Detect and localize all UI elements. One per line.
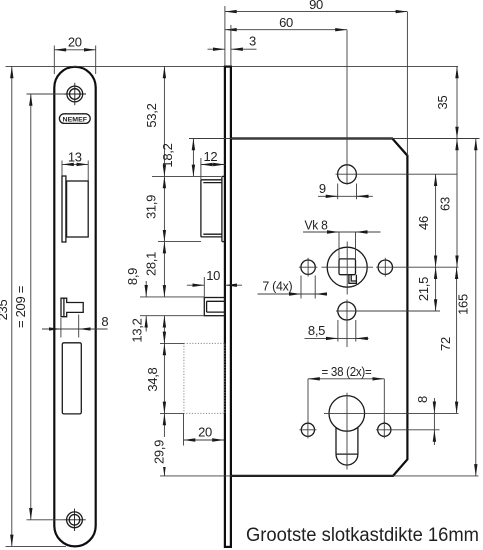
extension line screw top (27, 93, 65, 95)
dim 53,2 (144, 66, 164, 176)
dim 13 latch width (62, 149, 88, 181)
dim 9 (318, 181, 373, 199)
dim 8,9 (125, 268, 146, 332)
dim 20 pocket (184, 413, 225, 445)
extension pocket bottom (160, 412, 184, 414)
svg-text:12: 12 (203, 149, 217, 164)
deadbolt slot (left view) (62, 343, 81, 414)
dim 31,9 (144, 176, 165, 241)
svg-text:8,5: 8,5 (308, 323, 325, 338)
dim 18,2 (160, 139, 193, 177)
dim 21,5 (416, 267, 436, 311)
dim 8 right (415, 396, 435, 445)
extension line plate bottom (6, 545, 67, 547)
svg-text:53,2: 53,2 (144, 103, 159, 127)
svg-text:28,1: 28,1 (143, 252, 158, 276)
dim 12 (201, 149, 225, 180)
svg-text:7 (4x): 7 (4x) (262, 279, 292, 294)
svg-text:29,9: 29,9 (151, 440, 166, 464)
fixing hole 7mm left (299, 258, 318, 277)
dim 235 (0, 66, 12, 546)
dim =209= (13, 94, 31, 520)
svg-text:90: 90 (309, 0, 323, 12)
svg-text:235: 235 (0, 300, 10, 321)
auxiliary latch T (left view) (61, 298, 83, 317)
dim =38(2x)= (308, 364, 384, 423)
dim 72 (438, 267, 457, 413)
svg-text:165: 165 (455, 294, 470, 315)
dim 13,2 (129, 316, 164, 344)
latch cutout (left view) (62, 176, 88, 242)
fixing hole 7mm right (378, 258, 392, 277)
lock case outline (231, 139, 408, 476)
svg-text:13: 13 (68, 149, 82, 164)
svg-text:9: 9 (319, 181, 326, 196)
dim 60 (225, 15, 347, 30)
svg-text:63: 63 (438, 197, 453, 211)
dim Vk 8 (303, 218, 381, 259)
svg-text:Grootste slotkastdikte 16mm: Grootste slotkastdikte 16mm (246, 525, 479, 546)
screw hole bottom (63, 509, 85, 531)
dim 8,5 (305, 320, 369, 342)
svg-text:31,9: 31,9 (144, 195, 159, 219)
cylinder fixing hole right (376, 421, 440, 438)
dim 20 plate width (54, 35, 95, 74)
dim 28,1 (143, 242, 164, 297)
case bottom extension thin (160, 475, 479, 477)
svg-text:13,2: 13,2 (129, 318, 144, 342)
svg-text:NEMEF: NEMEF (63, 116, 88, 123)
svg-text:21,5: 21,5 (416, 277, 431, 301)
euro cylinder hole (324, 393, 459, 470)
svg-text:8: 8 (101, 314, 108, 329)
dim 63 (438, 139, 457, 268)
extension latch bottom (158, 241, 201, 243)
svg-text:= 38 (2x)=: = 38 (2x)= (322, 364, 372, 379)
long extension line top (6, 65, 459, 67)
svg-text:34,8: 34,8 (145, 367, 160, 391)
svg-text:3: 3 (249, 33, 256, 48)
extension pocket top (160, 342, 184, 344)
svg-text:60: 60 (279, 15, 293, 30)
svg-text:20: 20 (68, 35, 82, 50)
case backset extension top right (406, 12, 408, 156)
dim 8 aux latch (42, 314, 108, 338)
faceplate strip (side) (225, 67, 231, 547)
svg-text:46: 46 (416, 216, 431, 230)
dim 34,8 (145, 343, 165, 413)
extension aux top (140, 296, 204, 298)
screw hole top (64, 83, 86, 105)
svg-text:72: 72 (438, 337, 453, 351)
NEMEF logo (59, 114, 90, 124)
dim 7(4x) (258, 276, 327, 299)
extension spindle row right (376, 266, 458, 268)
dim 10 (187, 268, 242, 298)
latch hole 9mm (336, 30, 458, 185)
extension aux bottom (140, 315, 204, 317)
spindle follower (322, 242, 374, 295)
dim 165 (455, 139, 476, 476)
extension line screw bottom (27, 519, 64, 521)
dim 35 (435, 66, 457, 138)
svg-text:20: 20 (198, 425, 212, 440)
svg-text:= 209 =: = 209 = (13, 286, 28, 328)
svg-text:18,2: 18,2 (160, 143, 175, 167)
dim 29,9 (151, 413, 170, 476)
svg-text:8: 8 (415, 396, 430, 403)
case top extension thin (189, 138, 480, 140)
cylinder fixing hole left (299, 421, 316, 438)
hole 8.5 (336, 300, 440, 348)
dim 3 (208, 6, 257, 67)
svg-text:35: 35 (435, 96, 450, 110)
faceplate outline (left view) (54, 67, 95, 547)
dim 90 (225, 0, 408, 12)
svg-text:8,9: 8,9 (125, 268, 140, 285)
extension latch top (152, 175, 221, 177)
svg-text:10: 10 (206, 268, 220, 283)
latch block (side view) (201, 176, 225, 241)
dim 46 (416, 174, 436, 267)
svg-text:Vk 8: Vk 8 (305, 218, 328, 233)
aux latch block (side view) (204, 298, 225, 316)
deadbolt pocket dotted (184, 343, 225, 413)
